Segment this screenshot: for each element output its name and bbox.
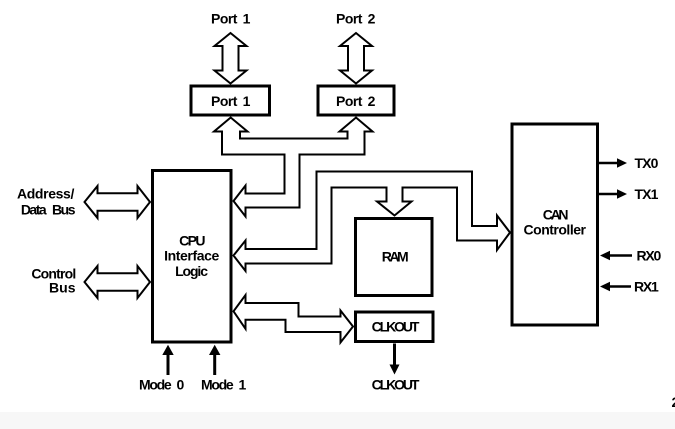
bottom gray bar xyxy=(0,412,675,429)
svg-text:RAM: RAM xyxy=(382,249,408,265)
CLKOUT box xyxy=(356,312,434,342)
svg-text:Mode 1: Mode 1 xyxy=(201,377,246,393)
svg-text:TX0: TX0 xyxy=(635,155,659,171)
CLKOUT output arrow xyxy=(393,344,396,367)
bus B: CPU arrow 2, RAM down-arrow, CAN right-arrow (hollow wire loop) xyxy=(234,172,511,272)
svg-text:Logic: Logic xyxy=(175,263,208,279)
TX0 arrow xyxy=(599,162,618,165)
svg-text:Interface: Interface xyxy=(164,248,219,264)
svg-text:RX1: RX1 xyxy=(634,279,659,295)
svg-text:Address/: Address/ xyxy=(17,186,75,202)
Mode 0 arrow xyxy=(167,354,170,375)
bidirectional arrow Port2 top xyxy=(340,33,372,84)
CPU-CLKOUT bidirectional Z arrow xyxy=(234,295,354,343)
svg-text:RX0: RX0 xyxy=(637,248,662,264)
RX1 arrow xyxy=(610,285,631,288)
TX1 arrow xyxy=(599,193,618,196)
bidirectional arrow Port1 top xyxy=(215,33,247,84)
svg-text:Port 1: Port 1 xyxy=(211,93,251,109)
bus A: ports to CPU arrow 1 (hollow wire loop) xyxy=(214,118,373,217)
RAM box xyxy=(356,219,433,296)
svg-text:Data Bus: Data Bus xyxy=(21,202,76,218)
CPU box xyxy=(153,171,232,343)
svg-text:Mode 0: Mode 0 xyxy=(139,377,184,393)
box Port 2 xyxy=(318,86,394,115)
svg-text:Port 1: Port 1 xyxy=(211,11,251,27)
svg-text:Port 2: Port 2 xyxy=(336,93,376,109)
svg-text:Port 2: Port 2 xyxy=(336,11,376,27)
Mode 1 arrow xyxy=(213,354,216,375)
svg-text:Bus: Bus xyxy=(49,280,76,296)
box Port 1 xyxy=(191,86,270,115)
svg-text:Controller: Controller xyxy=(524,222,587,238)
svg-text:CPU: CPU xyxy=(179,233,205,249)
svg-text:CLKOUT: CLKOUT xyxy=(372,319,420,335)
Address/Data Bus double arrow xyxy=(85,186,151,218)
Control Bus double arrow xyxy=(85,266,151,298)
svg-text:TX1: TX1 xyxy=(635,186,659,202)
RX0 arrow xyxy=(610,254,632,257)
svg-text:2: 2 xyxy=(672,394,675,410)
CAN Controller box xyxy=(512,124,598,325)
svg-text:CLKOUT: CLKOUT xyxy=(372,377,420,393)
svg-text:CAN: CAN xyxy=(543,207,569,223)
